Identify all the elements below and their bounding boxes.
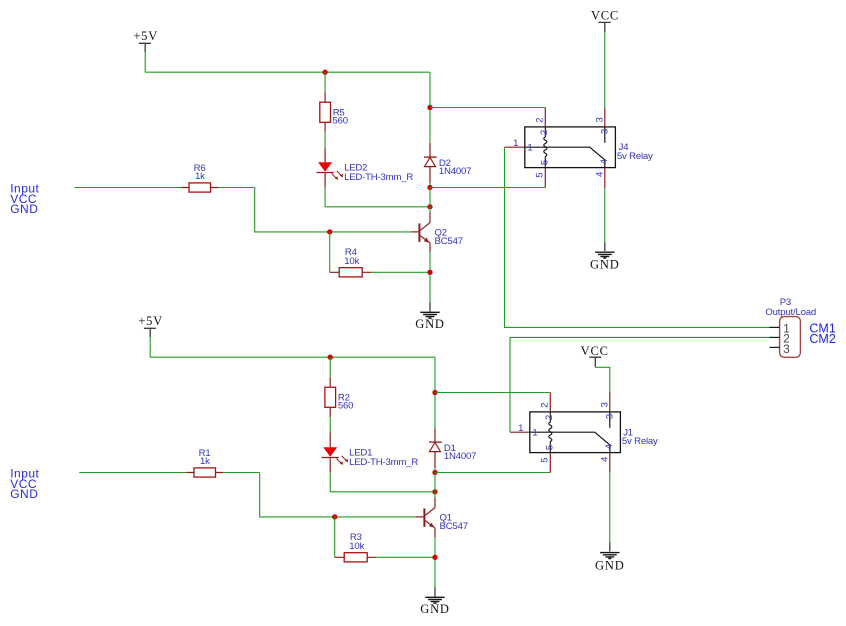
wire R1 to base corner <box>223 472 259 474</box>
svg-text:BC547: BC547 <box>440 521 468 532</box>
svg-text:GND: GND <box>595 558 624 572</box>
label Input (bottom) <box>10 466 39 500</box>
wire emitter down <box>429 252 431 302</box>
relay J1 pin 4 <box>609 453 611 473</box>
relay J1 pin 5 <box>549 453 551 473</box>
relay J1 pin 1 <box>510 431 530 433</box>
svg-text:10k: 10k <box>349 541 364 552</box>
wire node to collector <box>429 188 431 213</box>
svg-text:1: 1 <box>532 427 537 438</box>
junction rail/R2 <box>328 355 333 360</box>
svg-text:GND: GND <box>415 317 444 331</box>
svg-text:GND: GND <box>420 602 449 616</box>
power flag +5V (bottom circuit) <box>138 314 163 337</box>
relay J4 pin 5 <box>544 168 546 188</box>
power flag VCC (top) <box>591 9 619 33</box>
connector P3 Output/Load <box>765 297 816 357</box>
P3 pin 2 <box>770 336 780 338</box>
relay J1 body <box>530 412 658 453</box>
relay J4 pin 4 <box>604 168 606 189</box>
wire relay J1 pin4 to ground <box>609 473 611 543</box>
wire base node down to R3 <box>334 517 336 557</box>
wire node to relay J4 pin 5 <box>430 187 545 189</box>
ground GND (below relay J4) <box>590 242 619 271</box>
wire +5V rail A <box>145 71 430 73</box>
svg-text:2: 2 <box>544 415 555 420</box>
svg-text:VCC: VCC <box>591 9 619 23</box>
wire emitter down <box>434 537 436 587</box>
wire rail to R5 <box>324 72 326 92</box>
wire R6 to base corner <box>218 187 254 189</box>
svg-text:2: 2 <box>539 403 550 408</box>
wire base Q1 from R1 <box>260 473 416 517</box>
relay J4 pin 3 <box>604 108 606 127</box>
transistor Q2 BC547 <box>411 213 463 253</box>
junction emitter/R3 <box>432 555 437 560</box>
wire +5V to rail <box>144 52 146 72</box>
wire node to collector Q1 <box>434 473 436 498</box>
wire +5V rail B <box>150 356 435 358</box>
svg-text:560: 560 <box>338 401 353 412</box>
svg-text:LED-TH-3mm_R: LED-TH-3mm_R <box>349 457 418 468</box>
wire rail corner down to D2 <box>429 72 431 143</box>
junction base/R4 <box>327 229 332 234</box>
wire input to R6 <box>74 187 181 189</box>
ground GND (below Q1) <box>420 587 449 616</box>
svg-text:5: 5 <box>534 172 545 177</box>
svg-text:5v Relay: 5v Relay <box>617 151 653 162</box>
svg-text:2: 2 <box>539 130 550 135</box>
wire input to R1 <box>79 472 186 474</box>
svg-text:CM2: CM2 <box>809 332 835 346</box>
power flag +5V (top circuit) <box>133 29 158 52</box>
resistor R6 1k <box>181 163 218 192</box>
svg-text:560: 560 <box>333 116 348 127</box>
svg-text:10k: 10k <box>344 256 359 267</box>
wire VCC to relay pin3 <box>604 32 606 107</box>
svg-text:VCC: VCC <box>581 344 609 358</box>
resistor R4 10k <box>330 247 372 277</box>
junction base/R3 <box>332 514 337 519</box>
svg-text:3: 3 <box>599 129 610 134</box>
svg-text:4: 4 <box>604 443 615 449</box>
junction emitter/R4 <box>427 270 432 275</box>
svg-text:1: 1 <box>513 138 518 149</box>
junction D2 top / relay pin2 <box>427 105 432 110</box>
wire D2 to node <box>429 183 431 188</box>
junction D1 top / relay pin2 <box>432 390 437 395</box>
svg-text:3: 3 <box>604 414 615 419</box>
junction D2 bottom / relay pin5 <box>427 185 432 190</box>
relay J4 pin 2 <box>544 108 546 127</box>
wire R5 to LED2 <box>324 132 326 147</box>
svg-text:4: 4 <box>595 171 606 177</box>
svg-text:1N4007: 1N4007 <box>439 166 471 177</box>
power flag VCC (bottom) <box>581 344 609 368</box>
relay J4 body <box>525 127 653 168</box>
svg-text:4: 4 <box>600 456 611 462</box>
svg-text:+5V: +5V <box>133 29 158 43</box>
svg-text:+5V: +5V <box>138 314 163 328</box>
wire VCC dogleg to relay J1 pin3 <box>595 367 610 392</box>
svg-text:GND: GND <box>10 202 38 216</box>
svg-text:GND: GND <box>590 258 619 272</box>
svg-text:5v Relay: 5v Relay <box>622 436 658 447</box>
svg-text:1k: 1k <box>200 456 210 467</box>
wire R3 to emitter node <box>376 556 435 558</box>
transistor Q1 BC547 <box>416 498 468 538</box>
resistor R5 560 <box>320 92 348 132</box>
wire relay pin4 to ground <box>604 188 606 242</box>
svg-text:BC547: BC547 <box>435 236 463 247</box>
svg-text:1N4007: 1N4007 <box>444 451 476 462</box>
LED D2 LED2 <box>317 147 414 187</box>
svg-text:GND: GND <box>10 487 38 501</box>
svg-text:1: 1 <box>527 142 532 153</box>
wire R2 to LED1 <box>329 417 331 432</box>
relay J1 pin 3 <box>609 393 611 412</box>
diode D1 1N4007 <box>429 428 476 468</box>
P3 pin 3 <box>770 346 780 348</box>
svg-text:4: 4 <box>599 158 610 164</box>
svg-text:Output/Load: Output/Load <box>765 307 816 318</box>
label Input (top) <box>10 181 39 215</box>
diode D2 1N4007 <box>424 143 471 183</box>
svg-text:5: 5 <box>539 457 550 462</box>
wire D1 to node <box>434 468 436 473</box>
wire R4 to emitter node <box>371 271 430 273</box>
wire LED1 down corner <box>330 473 435 492</box>
junction D1 bottom / relay pin5 <box>432 470 437 475</box>
svg-text:5: 5 <box>539 160 550 165</box>
junction LED1/collector node <box>432 489 437 494</box>
relay J4 pin 1 <box>505 146 525 148</box>
wire LED2 down corner <box>325 188 430 207</box>
ground GND (below relay J1) <box>595 542 624 572</box>
resistor R2 560 <box>325 377 353 417</box>
wire base Q2 from R6 <box>255 188 411 232</box>
LED LED1 <box>322 432 419 472</box>
junction LED2/collector node <box>427 204 432 209</box>
P3 pin 1 <box>770 326 780 328</box>
svg-text:1: 1 <box>518 423 523 434</box>
ground GND (below Q2) <box>415 302 444 331</box>
svg-text:2: 2 <box>534 118 545 123</box>
wire node to relay J1 pin 5 <box>435 472 550 474</box>
wire relay J1 pin1 up and to P3 pin2 <box>510 337 770 432</box>
wire rail corner down to D1 <box>434 357 436 428</box>
wire relay pin1 to P3 pin1 <box>505 147 770 327</box>
junction rail/R5 <box>322 70 327 75</box>
wire to relay J4 pin 2 <box>430 107 545 109</box>
svg-text:3: 3 <box>783 342 790 356</box>
svg-text:3: 3 <box>595 117 606 122</box>
wire to relay J1 pin 2 <box>435 392 550 394</box>
resistor R1 1k <box>186 448 223 477</box>
wire base node down to R4 <box>329 232 331 272</box>
relay J1 pin 2 <box>549 393 551 412</box>
svg-text:1k: 1k <box>195 171 205 182</box>
wire rail to R2 <box>329 357 331 377</box>
resistor R3 10k <box>335 532 377 562</box>
svg-text:3: 3 <box>600 402 611 407</box>
svg-text:5: 5 <box>544 445 555 450</box>
svg-text:LED-TH-3mm_R: LED-TH-3mm_R <box>344 172 413 183</box>
wire +5V to rail B <box>149 337 151 357</box>
